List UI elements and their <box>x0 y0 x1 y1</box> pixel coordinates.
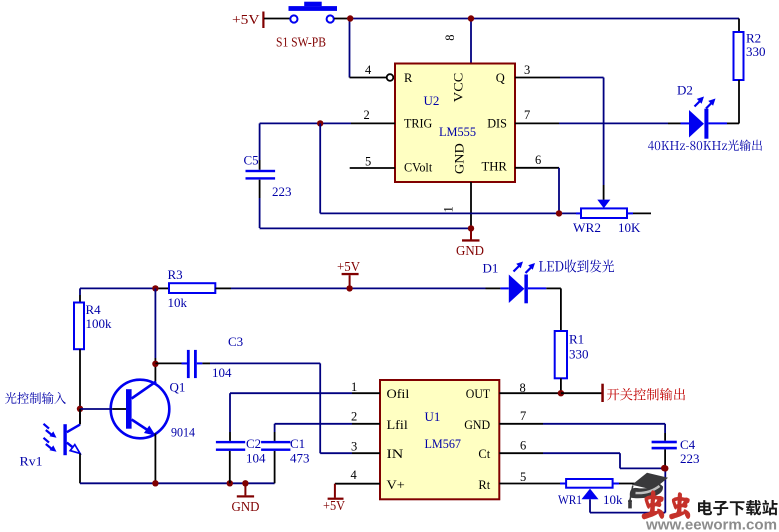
svg-text:R3: R3 <box>168 267 183 282</box>
svg-text:IN: IN <box>387 447 404 461</box>
svg-text:D1: D1 <box>483 260 499 275</box>
svg-text:R1: R1 <box>569 332 584 347</box>
svg-text:2: 2 <box>364 108 370 122</box>
svg-text:5: 5 <box>520 470 526 484</box>
svg-text:GND: GND <box>453 143 467 174</box>
svg-text:VCC: VCC <box>451 73 465 103</box>
svg-text:4: 4 <box>351 468 358 482</box>
svg-text:D2: D2 <box>677 83 693 98</box>
svg-text:LM567: LM567 <box>425 436 462 451</box>
svg-text:U2: U2 <box>424 93 440 108</box>
svg-text:DIS: DIS <box>487 116 507 130</box>
svg-text:Rv1: Rv1 <box>20 454 43 469</box>
svg-text:104: 104 <box>246 451 266 466</box>
svg-text:6: 6 <box>535 153 541 167</box>
svg-text:330: 330 <box>746 44 766 59</box>
svg-text:TRIG: TRIG <box>404 116 432 130</box>
svg-text:4: 4 <box>365 63 372 77</box>
svg-text:9014: 9014 <box>171 425 195 440</box>
svg-text:C2: C2 <box>246 436 261 451</box>
svg-text:104: 104 <box>212 365 232 380</box>
svg-text:8: 8 <box>443 34 457 40</box>
svg-text:1: 1 <box>351 380 357 394</box>
svg-text:THR: THR <box>482 160 508 174</box>
svg-text:10k: 10k <box>603 492 623 507</box>
svg-text:3: 3 <box>351 440 357 454</box>
svg-text:GND: GND <box>464 418 490 432</box>
svg-text:5: 5 <box>365 155 371 169</box>
svg-text:3: 3 <box>524 63 530 77</box>
svg-text:8: 8 <box>520 381 526 395</box>
svg-text:GND: GND <box>456 244 484 259</box>
svg-text:Lfil: Lfil <box>387 418 409 432</box>
svg-text:WR2: WR2 <box>573 220 601 235</box>
svg-text:GND: GND <box>232 500 260 515</box>
svg-text:S1 SW-PB: S1 SW-PB <box>276 36 326 51</box>
svg-text:LM555: LM555 <box>439 124 476 139</box>
svg-text:6: 6 <box>520 439 526 453</box>
svg-text:Rt: Rt <box>478 478 490 492</box>
svg-text:U1: U1 <box>425 409 441 424</box>
svg-text:7: 7 <box>520 409 526 423</box>
svg-text:+5V: +5V <box>323 498 345 513</box>
svg-text:Ofil: Ofil <box>387 387 410 401</box>
svg-text:www.eeworm.com: www.eeworm.com <box>645 517 777 532</box>
svg-text:C4: C4 <box>680 437 696 452</box>
svg-text:C5: C5 <box>244 153 259 168</box>
svg-text:WR1: WR1 <box>558 492 582 507</box>
svg-text:223: 223 <box>680 451 700 466</box>
svg-text:Ct: Ct <box>478 447 490 461</box>
svg-text:Q1: Q1 <box>170 380 186 395</box>
svg-text:C1: C1 <box>290 436 305 451</box>
svg-text:CVolt: CVolt <box>404 160 433 174</box>
svg-text:10k: 10k <box>168 295 188 310</box>
svg-text:1: 1 <box>442 206 456 212</box>
svg-text:330: 330 <box>569 347 589 362</box>
svg-text:OUT: OUT <box>466 387 491 401</box>
svg-text:+5V: +5V <box>232 13 260 28</box>
svg-text:7: 7 <box>524 108 530 122</box>
svg-text:C3: C3 <box>228 334 243 349</box>
svg-text:2: 2 <box>351 409 357 423</box>
svg-text:+5V: +5V <box>337 260 360 275</box>
svg-text:473: 473 <box>290 451 310 466</box>
svg-text:R: R <box>404 71 413 85</box>
svg-text:R4: R4 <box>86 302 102 317</box>
svg-text:10K: 10K <box>618 220 641 235</box>
svg-text:223: 223 <box>272 184 292 199</box>
svg-text:100k: 100k <box>86 316 113 331</box>
svg-text:V+: V+ <box>387 478 405 492</box>
svg-text:Q: Q <box>496 71 505 85</box>
